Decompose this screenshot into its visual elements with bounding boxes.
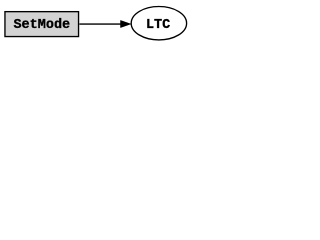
svg-text:LTC: LTC: [146, 18, 170, 33]
node LTC (ellipse): [131, 7, 186, 40]
svg-text:SetMode: SetMode: [13, 18, 70, 33]
node SetMode (filled process box): [5, 12, 79, 37]
arrowhead: [121, 20, 131, 27]
wire: edge SetMode to LTC: [79, 23, 121, 25]
